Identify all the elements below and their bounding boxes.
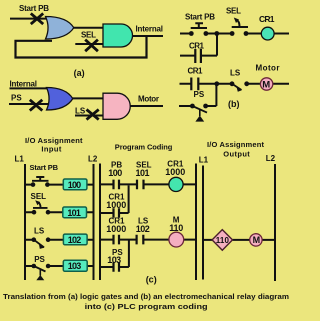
rail L2 output [274, 164, 276, 281]
svg-text:Program Coding: Program Coding [115, 142, 173, 151]
wire CR1 holding branch [180, 35, 217, 56]
svg-text:Internal: Internal [10, 80, 38, 89]
node junction rung2 [214, 81, 219, 86]
svg-text:1000: 1000 [106, 224, 126, 234]
svg-text:PS: PS [11, 94, 22, 103]
wire input row D [25, 265, 94, 267]
switch PS lever [192, 106, 207, 113]
wire Start PB input [10, 18, 48, 20]
node dot rowB left [32, 210, 37, 215]
svg-text:PS: PS [194, 90, 205, 99]
wire LS input [75, 115, 104, 117]
contact SEL bars [137, 180, 144, 190]
svg-text:Motor: Motor [256, 64, 280, 73]
contact X LS [87, 110, 99, 120]
svg-text:SEL: SEL [226, 7, 241, 16]
svg-text:LS: LS [75, 107, 86, 116]
rail L1 output [202, 166, 204, 280]
contact X SEL [85, 40, 98, 52]
wire OR1 output [73, 27, 104, 29]
svg-text:into (c) PLC program coding: into (c) PLC program coding [85, 302, 209, 311]
svg-text:101: 101 [136, 168, 150, 178]
node dot rowC left [32, 237, 37, 242]
svg-text:PS: PS [34, 255, 45, 264]
svg-text:101: 101 [67, 208, 81, 218]
wire Internal input row2 [10, 87, 51, 89]
svg-text:SEL: SEL [31, 192, 47, 201]
wire SEL input [75, 43, 104, 45]
svg-text:Start PB: Start PB [19, 4, 49, 13]
svg-text:CR1: CR1 [189, 42, 205, 51]
svg-text:Start PB: Start PB [30, 163, 59, 172]
svg-text:(b): (b) [228, 99, 240, 109]
switch LS lever [232, 84, 242, 90]
switch PS rowD bellows triangle [36, 275, 44, 280]
and-gate AND1 [103, 24, 133, 47]
contact CR1 branch bars [114, 208, 120, 218]
box 100 [63, 179, 87, 190]
svg-text:(a): (a) [74, 68, 85, 78]
node dot SEL right [244, 31, 249, 36]
wire rung1 (b) [180, 33, 289, 35]
switch LS rowC flag [39, 243, 45, 249]
svg-text:102: 102 [68, 235, 82, 245]
switch PS bellows triangle [195, 116, 204, 122]
svg-text:L1: L1 [199, 156, 209, 165]
coil M prog [169, 232, 184, 247]
switch PS rowD lever [34, 266, 46, 272]
wire program rung2 [100, 239, 196, 241]
switch SEL lever [232, 20, 248, 27]
svg-text:100: 100 [108, 168, 122, 178]
and-gate AND2 [103, 93, 130, 119]
diamond 110 [212, 230, 232, 251]
svg-text:100: 100 [68, 180, 82, 190]
svg-text:Translation from (a) logic gat: Translation from (a) logic gates and (b)… [3, 292, 289, 301]
svg-text:103: 103 [68, 261, 82, 271]
contact CR1 rung2 bars [114, 235, 120, 245]
coil Motor M (b) [260, 78, 272, 90]
svg-text:L1: L1 [15, 154, 25, 163]
node dot rowB right [46, 210, 51, 215]
svg-text:L2: L2 [266, 154, 276, 163]
node dot LS left [230, 81, 235, 86]
svg-text:1000: 1000 [165, 167, 185, 177]
contact PS branch bars [114, 262, 120, 272]
contact CR1 bars [195, 49, 201, 63]
switch PS rowD stem [39, 269, 41, 276]
wire output rung [203, 239, 275, 241]
rail L2 input [93, 164, 95, 280]
wire PS input [9, 103, 49, 105]
svg-text:Internal: Internal [136, 25, 164, 34]
wire Motor output [130, 105, 163, 107]
svg-text:CR1: CR1 [259, 14, 275, 24]
rail L1 input [24, 164, 26, 280]
svg-text:110: 110 [169, 223, 183, 233]
contact X PS [30, 100, 43, 111]
wire program rung1 [100, 183, 196, 185]
rail program right [195, 164, 197, 281]
wire feedback to OR1 [16, 36, 147, 58]
switch SEL arrowhead [234, 18, 239, 24]
svg-text:L2: L2 [88, 154, 98, 163]
wire OR2 output [72, 97, 104, 99]
wire rung2 (b) [180, 83, 290, 85]
contact PB bars [114, 180, 120, 190]
contact X Start PB [31, 13, 43, 24]
svg-text:Motor: Motor [138, 95, 159, 104]
node dot rowA right [45, 182, 50, 187]
svg-text:LS: LS [34, 227, 45, 236]
contact LS bars [137, 235, 144, 245]
wire input row A [25, 184, 94, 186]
node dot PB right [204, 31, 209, 36]
node dot rowD left [32, 264, 37, 269]
svg-text:110: 110 [216, 236, 230, 245]
coil M output [250, 234, 262, 246]
svg-text:Input: Input [41, 145, 62, 154]
switch LS rowC lever [34, 240, 44, 248]
svg-text:102: 102 [136, 224, 150, 234]
svg-text:I/O Assignment: I/O Assignment [207, 140, 265, 149]
or-gate OR2 [47, 88, 73, 111]
pushbutton Start PB bridge [191, 23, 207, 28]
node dot PB left [189, 31, 194, 36]
box 101 [63, 207, 87, 218]
node dot rowC right [46, 237, 51, 242]
svg-text:Output: Output [223, 149, 250, 158]
node dot PS left [190, 104, 195, 109]
svg-text:M: M [253, 235, 261, 245]
svg-text:CR1: CR1 [188, 67, 204, 76]
switch LS flag [237, 87, 242, 92]
contact CR1 bars rung2 [191, 78, 198, 91]
wire input row C [25, 239, 94, 241]
wire Internal output [133, 35, 164, 37]
node dot SEL left [230, 31, 235, 36]
node dot rowA left [31, 182, 36, 187]
node dot LS right [244, 81, 249, 86]
or-gate OR1 [46, 17, 74, 40]
switch PS stem [199, 110, 201, 116]
svg-text:1000: 1000 [106, 200, 126, 210]
wire PS branch prog [100, 241, 129, 268]
wire CR1 holding branch prog [100, 186, 129, 214]
svg-text:LS: LS [230, 69, 241, 78]
svg-text:Start PB: Start PB [185, 13, 215, 22]
coil CR1 prog [169, 177, 183, 191]
wire input row B [25, 211, 94, 213]
wire PS branch (b) [179, 85, 216, 106]
pushbutton rowA bridge [32, 177, 49, 181]
node dot rowD right [46, 264, 51, 269]
node junction rung1 [214, 31, 219, 36]
svg-text:M: M [262, 80, 270, 91]
box 102 [63, 234, 87, 245]
node dot PS right [203, 104, 208, 109]
switch SEL rowB arrowhead [35, 200, 40, 205]
coil CR1 (b) [261, 27, 274, 40]
switch SEL rowB bridge and lever [33, 202, 48, 208]
rail program left [99, 164, 101, 281]
svg-text:SEL: SEL [81, 31, 96, 40]
box 103 [63, 260, 87, 271]
svg-text:(c): (c) [146, 274, 157, 284]
